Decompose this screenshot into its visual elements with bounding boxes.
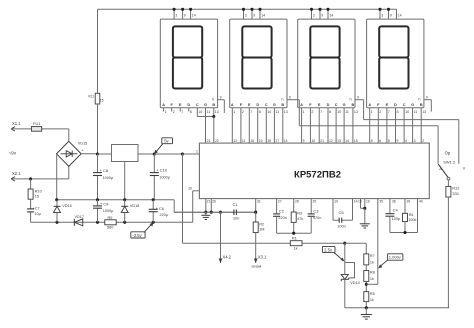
svg-text:Op: Op (445, 150, 451, 155)
svg-text:1k: 1k (294, 247, 298, 251)
svg-text:A: A (368, 103, 371, 107)
svg-text:G: G (343, 103, 346, 107)
svg-text:C: C (403, 103, 406, 107)
svg-text:КР572ПВ2: КР572ПВ2 (294, 170, 341, 181)
svg-text:15: 15 (259, 139, 263, 143)
svg-text:1000μ: 1000μ (103, 176, 114, 180)
svg-text:D: D (187, 103, 190, 107)
svg-text:8: 8 (397, 110, 399, 114)
svg-text:10: 10 (334, 200, 338, 204)
svg-text:8: 8 (388, 139, 390, 143)
svg-text:2: 2 (242, 110, 244, 114)
svg-text:R3: R3 (297, 212, 302, 216)
svg-text:VD15: VD15 (78, 142, 88, 146)
svg-text:17: 17 (275, 139, 279, 143)
svg-text:47k: 47k (297, 217, 303, 221)
svg-text:9: 9 (184, 14, 186, 18)
svg-text:D: D (256, 103, 259, 107)
svg-text:VD16: VD16 (62, 204, 71, 208)
svg-text:7: 7 (320, 110, 322, 114)
svg-text:~9v: ~9v (9, 151, 17, 156)
svg-text:X1.1: X1.1 (12, 121, 21, 126)
svg-text:27: 27 (278, 200, 282, 204)
svg-text:39: 39 (407, 200, 411, 204)
svg-text:3: 3 (245, 14, 247, 18)
svg-text:8: 8 (329, 110, 331, 114)
svg-text:B: B (352, 103, 355, 107)
svg-text:C6: C6 (159, 206, 165, 211)
svg-text:5: 5 (371, 139, 373, 143)
svg-text:E: E (386, 103, 389, 107)
svg-text:C5: C5 (339, 210, 345, 215)
svg-text:560: 560 (107, 226, 113, 230)
svg-text:14: 14 (284, 139, 288, 143)
svg-text:16: 16 (250, 139, 254, 143)
svg-text:14: 14 (398, 14, 402, 18)
svg-text:9: 9 (220, 96, 222, 100)
svg-text:15: 15 (100, 98, 104, 102)
svg-text:35: 35 (379, 200, 383, 204)
svg-text:C8: C8 (103, 168, 109, 173)
svg-text:9: 9 (397, 139, 399, 143)
svg-text:28: 28 (295, 200, 299, 204)
svg-text:38: 38 (392, 200, 396, 204)
svg-text:14: 14 (329, 14, 333, 18)
svg-text:R4: R4 (409, 213, 414, 217)
svg-text:9: 9 (390, 14, 392, 18)
svg-text:2: 2 (311, 110, 313, 114)
svg-text:C3: C3 (313, 209, 319, 214)
svg-text:26: 26 (212, 200, 216, 204)
svg-text:3: 3 (175, 14, 177, 18)
svg-text:R2: R2 (259, 222, 264, 226)
svg-text:VD18: VD18 (130, 204, 140, 208)
svg-text:11: 11 (207, 110, 211, 114)
svg-text:VD17: VD17 (75, 215, 85, 219)
svg-text:D: D (394, 103, 397, 107)
svg-text:3: 3 (313, 14, 315, 18)
svg-text:3: 3 (414, 139, 416, 143)
svg-text:SW1.2: SW1.2 (443, 160, 456, 165)
svg-text:C4: C4 (393, 207, 399, 212)
svg-text:21: 21 (320, 139, 324, 143)
svg-text:13: 13 (422, 110, 426, 114)
svg-text:220n: 220n (278, 216, 286, 220)
svg-text:8: 8 (190, 110, 192, 114)
svg-text:h: h (418, 97, 420, 101)
svg-text:10: 10 (198, 110, 202, 114)
svg-text:G: G (273, 103, 276, 107)
svg-text:470n: 470n (313, 216, 321, 220)
svg-text:X4.2: X4.2 (223, 255, 232, 260)
svg-text:8: 8 (259, 110, 261, 114)
svg-text:15: 15 (35, 195, 39, 199)
svg-text:C2: C2 (279, 209, 285, 214)
svg-text:29: 29 (313, 200, 317, 204)
svg-text:R1: R1 (292, 237, 297, 241)
svg-text:21: 21 (207, 139, 211, 143)
svg-text:R5: R5 (370, 292, 375, 296)
svg-text:Uизм: Uизм (252, 263, 262, 268)
svg-text:10: 10 (405, 110, 409, 114)
svg-text:4: 4 (405, 139, 407, 143)
svg-text:21: 21 (207, 200, 211, 204)
svg-text:R8: R8 (370, 271, 375, 275)
svg-text:1k: 1k (370, 261, 374, 265)
svg-text:2: 2 (173, 110, 175, 114)
svg-text:9: 9 (303, 139, 305, 143)
svg-text:14: 14 (192, 14, 196, 18)
svg-text:R11: R11 (88, 95, 94, 99)
svg-text:1: 1 (165, 110, 167, 114)
svg-text:C: C (335, 103, 338, 107)
svg-text:FU1: FU1 (33, 122, 40, 126)
svg-text:9: 9 (426, 96, 428, 100)
svg-text:330: 330 (452, 192, 458, 196)
svg-text:9: 9 (289, 96, 291, 100)
svg-text:C1: C1 (233, 202, 239, 207)
svg-text:7: 7 (181, 110, 183, 114)
svg-text:3: 3 (381, 14, 383, 18)
svg-text:1: 1 (196, 150, 198, 154)
svg-text:100n: 100n (337, 225, 345, 229)
svg-text:1k: 1k (370, 298, 374, 302)
svg-text:1k: 1k (370, 277, 374, 281)
svg-text:20: 20 (188, 186, 192, 190)
svg-text:6: 6 (379, 139, 381, 143)
svg-text:2.5v: 2.5v (324, 247, 333, 252)
svg-text:13: 13 (215, 110, 219, 114)
svg-text:E: E (179, 103, 182, 107)
svg-text:13: 13 (354, 110, 358, 114)
svg-text:10: 10 (267, 110, 271, 114)
svg-text:B: B (420, 103, 423, 107)
svg-text:X3.1: X3.1 (258, 255, 267, 260)
svg-text:15: 15 (358, 200, 362, 204)
svg-text:1.000v: 1.000v (389, 255, 401, 260)
svg-text:10: 10 (311, 139, 315, 143)
svg-text:1: 1 (371, 110, 373, 114)
svg-text:1: 1 (303, 110, 305, 114)
svg-text:7: 7 (250, 110, 252, 114)
svg-text:10: 10 (337, 110, 341, 114)
svg-text:h: h (349, 97, 351, 101)
svg-text:E: E (318, 103, 321, 107)
svg-text:V: V (463, 166, 466, 171)
svg-text:E: E (248, 103, 251, 107)
svg-text:B: B (212, 103, 215, 107)
svg-text:C10: C10 (160, 168, 168, 173)
svg-text:9: 9 (253, 14, 255, 18)
svg-text:R12: R12 (452, 187, 459, 191)
svg-text:13: 13 (284, 110, 288, 114)
svg-text:X2.1: X2.1 (12, 171, 21, 176)
svg-text:11: 11 (242, 139, 246, 143)
svg-text:16: 16 (366, 200, 370, 204)
svg-text:14: 14 (261, 14, 265, 18)
svg-text:10n: 10n (233, 216, 239, 220)
svg-text:12: 12 (233, 139, 237, 143)
svg-text:10μ: 10μ (34, 212, 40, 216)
svg-text:11: 11 (414, 110, 418, 114)
svg-text:R10: R10 (35, 189, 42, 193)
svg-text:C: C (265, 103, 268, 107)
svg-text:G: G (411, 103, 414, 107)
svg-text:C: C (196, 103, 199, 107)
svg-text:100k: 100k (408, 218, 416, 222)
svg-text:11: 11 (275, 110, 279, 114)
svg-text:A: A (162, 103, 165, 107)
svg-text:A: A (300, 103, 303, 107)
svg-text:R7: R7 (370, 254, 375, 258)
svg-text:+C7: +C7 (33, 207, 40, 211)
svg-text:9: 9 (357, 96, 359, 100)
svg-text:220μ: 220μ (160, 213, 169, 217)
svg-text:A: A (231, 103, 234, 107)
svg-text:22: 22 (215, 139, 219, 143)
svg-text:15: 15 (354, 139, 358, 143)
svg-text:11: 11 (345, 110, 349, 114)
svg-text:9: 9 (321, 14, 323, 18)
svg-text:1M: 1M (259, 228, 264, 232)
svg-text:B: B (281, 103, 284, 107)
svg-text:G: G (204, 103, 207, 107)
svg-text:40: 40 (419, 200, 423, 204)
svg-text:7: 7 (388, 110, 390, 114)
svg-text:VD14: VD14 (350, 281, 360, 285)
svg-text:1000μ: 1000μ (103, 209, 114, 213)
svg-text:-3.5v: -3.5v (132, 233, 142, 238)
svg-text:C9: C9 (103, 201, 109, 206)
svg-text:13: 13 (337, 139, 341, 143)
svg-text:1: 1 (233, 110, 235, 114)
svg-text:100p: 100p (392, 217, 400, 221)
svg-text:2: 2 (379, 110, 381, 114)
svg-text:18: 18 (267, 139, 271, 143)
svg-text:31: 31 (257, 200, 261, 204)
svg-text:D: D (327, 103, 330, 107)
svg-text:14: 14 (345, 139, 349, 143)
svg-text:h: h (212, 97, 214, 101)
svg-text:h: h (281, 97, 283, 101)
svg-text:2: 2 (422, 139, 424, 143)
svg-text:12: 12 (329, 139, 333, 143)
svg-text:R9: R9 (108, 216, 113, 220)
svg-text:1000μ: 1000μ (159, 175, 170, 179)
